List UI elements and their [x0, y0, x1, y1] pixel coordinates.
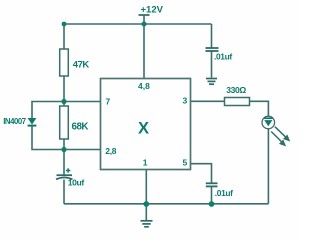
wire node to 10uf cap	[63, 150, 65, 175]
wire Vcc junction to IC pin 4,8	[143, 24, 145, 79]
wire 10uf to bottom rail	[63, 180, 65, 204]
wire 47K bottom to node	[63, 76, 65, 102]
wire top right cap branch	[211, 24, 213, 48]
svg-text:330Ω: 330Ω	[226, 85, 246, 95]
node C 47K/68K/pin7 junction	[61, 99, 66, 104]
svg-text:47K: 47K	[73, 60, 90, 71]
power symbol +12V	[139, 14, 150, 16]
ground top right	[206, 79, 217, 85]
svg-text:.01uf: .01uf	[215, 188, 233, 198]
node D 68K/pin2 junction	[61, 147, 66, 152]
svg-text:5: 5	[183, 158, 188, 168]
wire +12V stem	[143, 15, 145, 25]
wire pin 7	[64, 101, 101, 103]
svg-text:68K: 68K	[72, 121, 89, 132]
wire top cap to ground	[211, 51, 213, 78]
capacitor C2 .01uf top right	[206, 47, 219, 49]
op-amp box U1 555 timer X	[101, 79, 191, 170]
svg-text:+12V: +12V	[141, 5, 164, 16]
wire 68K bottom to node	[63, 139, 65, 150]
LED D2	[262, 116, 275, 129]
svg-text:7: 7	[106, 97, 111, 107]
svg-text:.01uf: .01uf	[214, 51, 232, 61]
svg-text:2,8: 2,8	[105, 146, 116, 156]
capacitor C1 10uf polarized	[57, 174, 73, 176]
wire 68K top	[63, 102, 65, 107]
wire pin 1 to rail	[145, 170, 147, 205]
wire center ground stem	[145, 204, 147, 220]
wire bottom cap to rail	[211, 187, 213, 204]
wire top rail	[64, 23, 212, 25]
resistor R1 47K	[60, 49, 69, 76]
wire pin 5	[191, 164, 212, 183]
svg-text:1: 1	[143, 158, 148, 168]
wire resistor to LED corner	[250, 101, 269, 116]
wire diode branch top	[32, 102, 64, 119]
ground center bottom	[141, 221, 153, 227]
node B +12V junction	[142, 22, 147, 27]
resistor R2 68K	[60, 106, 69, 139]
resistor R3 330ohm	[225, 98, 250, 106]
diode D1 IN4007	[28, 118, 37, 125]
wire pin 2,6	[64, 149, 101, 151]
wire bottom rail	[64, 203, 269, 205]
svg-text:3: 3	[183, 96, 188, 106]
node F bottom cap junction	[209, 201, 215, 207]
svg-text:IN4007: IN4007	[3, 117, 26, 126]
wire pin 3 to resistor	[191, 100, 225, 102]
wire 47K top	[63, 24, 65, 49]
svg-text:4,8: 4,8	[138, 81, 150, 91]
wire LED to bottom rail	[267, 129, 269, 204]
LED light arrows	[271, 127, 289, 146]
node A top left	[62, 22, 67, 27]
wire diode branch bottom	[32, 127, 64, 150]
svg-text:X: X	[138, 119, 149, 137]
svg-text:10uf: 10uf	[68, 178, 85, 188]
node E pin1/ground junction	[143, 201, 149, 207]
capacitor C3 .01uf bottom	[206, 182, 218, 184]
